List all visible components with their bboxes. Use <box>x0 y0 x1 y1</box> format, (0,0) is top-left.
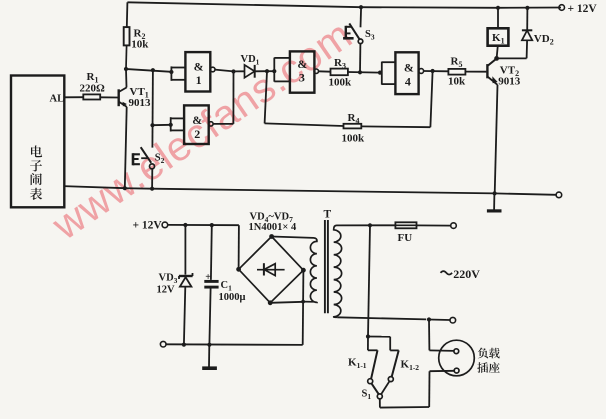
node VT2 collector junction <box>494 56 499 61</box>
nand gate U1 input bar <box>170 66 172 80</box>
diode VD1 <box>234 70 245 72</box>
wire socket top feed <box>428 320 430 351</box>
switch S3 actuator E <box>345 26 347 39</box>
wire lower dc rail <box>166 343 303 346</box>
terminal lower dc rail <box>160 341 166 347</box>
gate3 output bubble <box>314 69 318 73</box>
svg-text:&: & <box>192 113 202 127</box>
wire R4 feedback right vertical <box>430 71 432 127</box>
resistor R1 <box>83 94 100 99</box>
load socket <box>439 340 475 376</box>
nand gate U4 <box>395 52 418 94</box>
svg-text:1000μ: 1000μ <box>219 292 246 303</box>
wire primary top to fuse <box>337 224 396 226</box>
ground symbol lower <box>208 345 210 367</box>
wire gate2 output <box>213 123 233 125</box>
node VT1 collector junction <box>124 67 128 71</box>
transistor VT2 9013 <box>486 64 488 78</box>
svg-text:100k: 100k <box>329 77 353 89</box>
label 220V <box>441 271 453 274</box>
wire to socket bottom pin <box>430 370 455 372</box>
svg-text:+ 12V: + 12V <box>568 3 598 15</box>
svg-text:220Ω: 220Ω <box>80 82 106 94</box>
terminal +12V lower <box>162 222 168 228</box>
wire fuse to terminal <box>417 224 451 226</box>
wire R5 to VT2 base <box>465 71 486 73</box>
wire R4 feedback bottom left <box>265 123 344 126</box>
wire S1 to bottom rail <box>379 399 381 408</box>
terminal +12V top right <box>559 5 565 11</box>
wire S2 gate2 branch vertical <box>151 70 154 147</box>
wire K1 bottom to junction <box>497 46 498 59</box>
nand gate U4 input bar <box>381 62 383 85</box>
node gate3 input <box>272 69 276 73</box>
wire gate3 to R3 <box>318 70 330 72</box>
svg-text:100k: 100k <box>342 133 366 145</box>
wire bridge bottom to vertical <box>270 302 303 303</box>
nand gate U3 input bar <box>273 58 275 82</box>
node C1 top <box>210 223 214 227</box>
svg-text:12V: 12V <box>157 285 176 296</box>
label char 闹 <box>31 173 42 185</box>
node S3 branch <box>358 70 362 74</box>
wire junction to VD2 bottom <box>497 57 527 59</box>
svg-text:1N4001× 4: 1N4001× 4 <box>249 222 297 233</box>
label dianzi-naobiao char 电 <box>31 146 42 158</box>
svg-text:10k: 10k <box>131 39 149 51</box>
relay contact K1-1 <box>367 337 369 351</box>
node VD3 bottom <box>182 343 186 347</box>
node K contacts split <box>366 334 370 338</box>
node bridge left vertex <box>236 267 241 272</box>
svg-text:&: & <box>194 59 204 73</box>
socket bottom pin <box>454 368 459 373</box>
node bridge bottom vertex <box>268 300 273 305</box>
diode VD2 <box>526 8 528 30</box>
gate1 output bubble <box>210 67 215 72</box>
node C1 bottom ground <box>207 343 211 347</box>
switch S3 <box>360 7 363 27</box>
node K contact branch <box>368 223 372 227</box>
resistor R3 <box>331 69 348 76</box>
label chazuo char 插 <box>477 362 488 373</box>
wire VT2 emitter down <box>495 85 498 194</box>
switch S2 actuator E <box>132 153 135 165</box>
terminal mains bottom <box>450 317 456 323</box>
capacitor C1 1000u <box>210 225 213 280</box>
wire VT1 emitter down <box>125 107 127 188</box>
node socket top branch <box>427 317 431 321</box>
fuse FU <box>395 222 416 228</box>
wire to gate3 input <box>267 70 274 72</box>
socket top pin <box>454 349 459 354</box>
svg-text:9013: 9013 <box>498 76 521 88</box>
svg-text:2: 2 <box>194 127 200 141</box>
wire collector node to gate1 input <box>126 69 171 72</box>
transistor VT1 9013 <box>117 89 119 106</box>
nand gate U2 input bar <box>170 117 172 131</box>
resistor R2 <box>126 2 129 27</box>
node gate4 output / R4 junction <box>431 69 435 73</box>
terminal right end bottom rail <box>556 192 562 198</box>
wire R3 to gate4 input <box>348 71 380 74</box>
svg-text:3: 3 <box>299 71 305 85</box>
svg-text:1: 1 <box>196 73 202 87</box>
wire to gate2 input <box>153 124 171 126</box>
wire primary bottom line <box>337 317 426 319</box>
label char 表 <box>30 188 42 200</box>
gate2 output bubble <box>209 122 213 126</box>
wire VT1 collector up <box>125 69 128 87</box>
node top rail / S3 branch <box>359 5 363 9</box>
wire R1 to VT1 base <box>100 96 118 98</box>
nand gate U3 <box>290 51 315 92</box>
svg-text:4: 4 <box>405 74 411 88</box>
wire top +12V rail <box>127 2 561 8</box>
resistor R4 <box>344 124 362 129</box>
wire bottom rail upper section <box>64 186 557 195</box>
wire K contacts vertical <box>368 225 370 336</box>
svg-text:FU: FU <box>398 232 413 244</box>
node emitter VT1 on rail <box>123 186 127 190</box>
wire dc rail up to bridge right <box>302 270 305 345</box>
zener diode VD3 12V <box>184 225 186 275</box>
transformer T core <box>324 220 326 313</box>
ground symbol upper <box>493 193 495 209</box>
node bridge right vertex <box>301 268 306 273</box>
node top rail / K1 branch <box>496 6 500 10</box>
label chazuo char 座 <box>489 362 500 373</box>
wire AL to R1 <box>64 96 83 98</box>
node VD3 top <box>183 223 187 227</box>
wire bridge top to secondary <box>272 237 314 238</box>
svg-text:9013: 9013 <box>129 97 152 109</box>
transformer secondary winding <box>303 238 317 303</box>
node secondary bottom junction <box>301 300 305 304</box>
bridge rectifier VD4-VD7 <box>239 237 304 303</box>
wire +12V lower rail <box>168 224 239 226</box>
nand gate U1 <box>185 52 210 91</box>
nand gate U2 <box>184 105 209 144</box>
node top rail / VD2 branch <box>525 6 529 10</box>
switch S1 arm <box>371 383 378 394</box>
transformer primary winding <box>334 225 342 317</box>
node gate2 input branch <box>150 123 154 127</box>
svg-text:+ 12V: + 12V <box>133 220 163 232</box>
switch S2 <box>141 147 152 163</box>
wire gate1 output to node <box>215 70 234 72</box>
wire gate4 output <box>424 70 449 72</box>
wire up to socket bottom <box>428 371 430 407</box>
relay coil K1 <box>497 8 499 29</box>
node gate1 input <box>169 70 173 74</box>
wire node to mains bottom terminal <box>429 319 450 322</box>
resistor R5 <box>448 69 465 75</box>
node gate2 input <box>169 123 173 127</box>
node bridge top vertex <box>269 234 274 239</box>
svg-text:220V: 220V <box>453 267 480 281</box>
svg-text:&: & <box>297 57 307 71</box>
node S2 branch on collector wire <box>151 68 155 72</box>
relay contact K1-2 <box>368 336 390 338</box>
svg-text:+: + <box>205 272 211 283</box>
node S2 on rail <box>150 187 154 191</box>
svg-text:&: & <box>404 61 414 75</box>
wire R4 feedback bottom right <box>361 125 430 128</box>
wire down to bridge left <box>238 225 240 269</box>
label fuzai char 负 <box>478 348 488 359</box>
node VD1 anode junction <box>231 69 235 73</box>
svg-text:AL: AL <box>50 94 65 105</box>
node VT2 emitter on rail <box>493 191 497 195</box>
svg-text:T: T <box>324 209 332 221</box>
terminal mains top <box>451 223 457 229</box>
node gate4 input <box>378 71 382 75</box>
wire R4 feedback left vertical <box>265 71 267 123</box>
wire VT2 collector <box>488 58 496 65</box>
wire node down to gate2 output <box>232 72 234 124</box>
node VD1 cathode junction <box>265 69 269 73</box>
gate4 output bubble <box>419 69 424 74</box>
label char 子 <box>30 160 42 172</box>
wire bottom contact rail <box>380 406 429 409</box>
label fuzai char 载 <box>489 348 500 359</box>
left box electronic alarm clock <box>11 76 64 208</box>
svg-text:10k: 10k <box>448 76 466 88</box>
